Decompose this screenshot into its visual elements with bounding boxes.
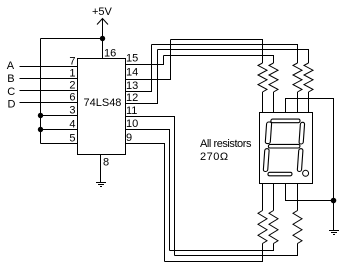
svg-text:11: 11 <box>126 105 137 117</box>
wire pin 13 output <box>126 45 152 92</box>
resistor R-E <box>258 211 267 244</box>
wire top run 2 (pin13 to R-C) <box>152 45 298 64</box>
wire top run 3 (pin12 to R-D) <box>158 50 309 64</box>
resistor R-C <box>293 63 302 92</box>
wire input B to pin 1 <box>20 78 78 80</box>
svg-text:4: 4 <box>69 119 75 131</box>
IC U1 74LS48 body <box>78 59 126 155</box>
wire +5V rail horizontal <box>41 38 103 40</box>
wire display common top to right rail <box>286 99 334 231</box>
svg-text:C: C <box>7 86 15 98</box>
svg-text:74LS48: 74LS48 <box>84 97 122 109</box>
node dot pin3 tie <box>38 113 43 118</box>
wire input D to pin 6 <box>20 102 78 104</box>
wire input C to pin 2 <box>20 90 78 92</box>
segment c <box>297 149 303 172</box>
wire pin 5 to rail <box>41 143 78 145</box>
svg-text:All resistors: All resistors <box>200 138 252 150</box>
wire R-B to display <box>273 92 275 113</box>
wire bottom rail (pin11 to R-G) <box>175 244 298 256</box>
resistor R-G <box>293 211 302 244</box>
resistor R-A <box>258 63 267 92</box>
svg-text:5: 5 <box>69 133 75 145</box>
svg-text:13: 13 <box>126 80 138 92</box>
svg-text:8: 8 <box>103 157 109 169</box>
svg-text:7: 7 <box>69 56 75 68</box>
wire R-C to display <box>297 92 299 113</box>
wire pin 10 output <box>126 130 170 251</box>
svg-text:+5V: +5V <box>92 6 113 18</box>
resistor R-F <box>269 211 278 244</box>
wire display to R-G <box>297 184 299 211</box>
wire R-D to display <box>308 92 310 113</box>
wire pin 3 to rail <box>41 115 78 117</box>
wire pin 15 output <box>126 56 164 65</box>
segment b <box>299 122 305 144</box>
wire left rail vertical <box>40 39 42 144</box>
svg-text:A: A <box>7 60 15 72</box>
segment f <box>265 122 272 144</box>
wire bottom rail (pin9 to R-E) <box>165 244 263 262</box>
segment d <box>268 172 292 176</box>
node dot pin4 tie <box>38 127 43 132</box>
resistor R-D <box>304 63 313 92</box>
svg-text:D: D <box>8 98 16 110</box>
wire pin 8 to ground <box>100 155 102 183</box>
wire pin 11 output <box>126 117 175 256</box>
svg-text:15: 15 <box>126 53 138 65</box>
decimal point <box>303 170 309 176</box>
node junction dot common <box>331 198 337 204</box>
svg-text:B: B <box>7 73 14 85</box>
svg-text:12: 12 <box>126 92 138 104</box>
node junction dot at +5V rail <box>100 36 105 41</box>
svg-text:16: 16 <box>104 48 116 60</box>
wire pin 9 output <box>126 144 165 262</box>
wire pin 4 to rail <box>41 129 78 131</box>
wire display common bottom to right rail <box>286 184 334 201</box>
svg-text:10: 10 <box>126 118 138 130</box>
wire pin 14 output <box>126 40 171 80</box>
resistor R-B <box>269 63 278 92</box>
wire R-A to display <box>262 92 264 113</box>
wire display to R-F <box>273 184 275 211</box>
segment e <box>263 149 269 172</box>
svg-text:270Ω: 270Ω <box>200 151 229 163</box>
svg-text:2: 2 <box>69 80 75 92</box>
wire pin16 to +5V <box>102 19 104 59</box>
wire pin 12 output <box>126 50 158 104</box>
wire bottom rail (pin10 to R-F) <box>170 244 274 251</box>
7-segment display DS1 body <box>260 113 313 184</box>
wire input A to pin 7 <box>20 66 78 68</box>
ground symbol under IC <box>96 183 106 187</box>
wire top run 4 (pin15 to R-B) <box>164 56 274 64</box>
svg-text:3: 3 <box>69 105 75 117</box>
svg-text:9: 9 <box>126 132 132 144</box>
wire top run 1 (pin14 to R-A) <box>171 40 263 64</box>
svg-text:14: 14 <box>126 67 138 79</box>
svg-text:1: 1 <box>69 68 75 80</box>
wire display to R-E <box>262 184 264 211</box>
svg-text:6: 6 <box>69 92 75 104</box>
segment g <box>268 144 300 148</box>
segment a <box>271 119 300 123</box>
+5V arrow symbol <box>97 19 108 25</box>
ground symbol right <box>329 231 339 235</box>
